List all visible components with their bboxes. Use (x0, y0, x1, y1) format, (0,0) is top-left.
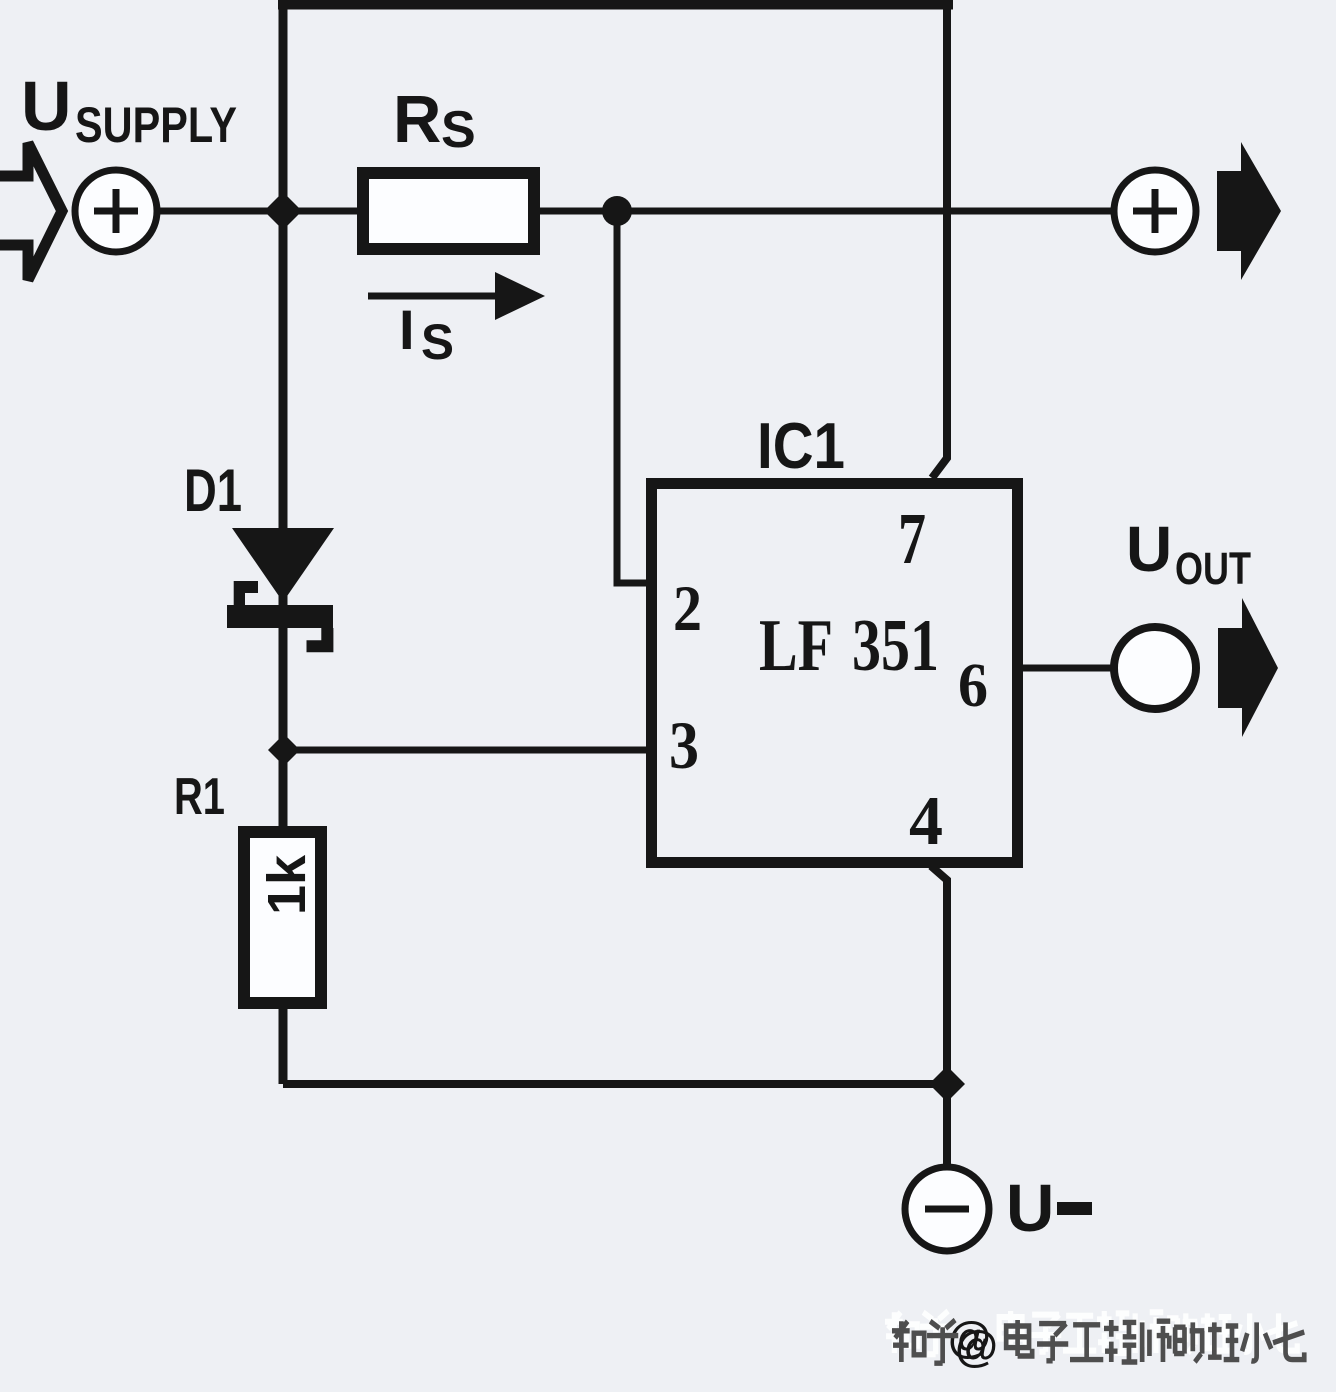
svg-text:I: I (399, 298, 415, 361)
svg-text:IC1: IC1 (757, 409, 845, 482)
wire main horizontal y=211 (116, 208, 1155, 215)
diode D1 (zener) (227, 528, 334, 652)
node supply + circle (75, 170, 157, 252)
node U- circle (905, 1167, 989, 1251)
svg-text:S: S (421, 314, 454, 370)
wire pin7 vertical (932, 4, 947, 478)
label U OUT (1126, 513, 1251, 594)
node junction D (diamond) (929, 1066, 965, 1102)
label U SUPPLY (21, 67, 237, 153)
node pin6 circle (1114, 627, 1196, 709)
svg-text:U: U (1006, 1171, 1054, 1246)
output arrow right (1218, 598, 1278, 737)
wire top bus (278, 0, 953, 10)
svg-text:@: @ (955, 1322, 998, 1371)
svg-text:351: 351 (852, 605, 939, 687)
output arrow top (1217, 142, 1281, 280)
svg-text:LF: LF (759, 605, 833, 687)
svg-text:U: U (1126, 513, 1172, 585)
label U- (1006, 1171, 1092, 1246)
svg-text:OUT: OUT (1175, 543, 1251, 594)
svg-text:D1: D1 (184, 457, 242, 524)
svg-text:R1: R1 (174, 768, 225, 826)
wire pin3 horizontal (283, 747, 652, 754)
node output + circle (1114, 170, 1196, 252)
resistor R1 (244, 832, 321, 1003)
node junction C (diamond) (268, 734, 300, 766)
wire pin4 down (931, 866, 947, 1167)
node junction B (dot) (602, 196, 632, 226)
wire node RS-right down to pin2 (617, 211, 652, 583)
wire pin6 to output (1023, 665, 1155, 672)
svg-text:7: 7 (898, 498, 926, 579)
input arrow (clipped at left edge) (0, 143, 62, 280)
wire bottom horizontal (283, 1080, 947, 1088)
svg-text:R: R (393, 82, 441, 157)
label IS (399, 298, 454, 370)
current arrow IS (368, 272, 545, 320)
svg-text:U: U (21, 67, 72, 145)
resistor RS (363, 173, 534, 249)
svg-text:2: 2 (673, 573, 702, 645)
svg-text:1k: 1k (257, 854, 317, 915)
watermark (stylized zhihu credit) (885, 1311, 1304, 1371)
svg-text:6: 6 (958, 652, 988, 720)
wire left vertical x=283 (279, 0, 288, 1084)
node junction A (diamond) (264, 192, 302, 230)
svg-text:S: S (441, 101, 476, 159)
svg-text:3: 3 (669, 707, 699, 783)
label RS (393, 82, 476, 159)
svg-text:4: 4 (909, 783, 943, 860)
op-amp IC1 box (652, 484, 1018, 863)
svg-text:SUPPLY: SUPPLY (75, 97, 237, 153)
